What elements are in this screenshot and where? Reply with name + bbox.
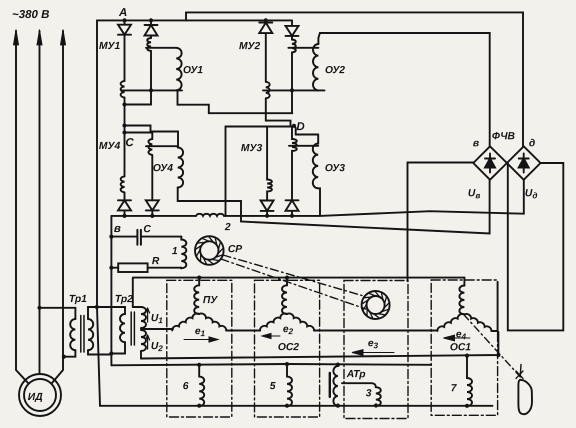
svg-text:СР: СР [228,244,242,255]
svg-text:е4: е4 [456,329,467,341]
bar to OU4 [146,145,178,147]
OU1 rail lead down right [178,90,209,113]
junction winding 7 top [465,354,469,358]
diode inside v [485,154,495,173]
svg-text:7: 7 [451,383,458,394]
MU1 left column down [124,98,126,177]
junction winding 3 bottom [374,403,378,407]
svg-text:Uв: Uв [468,188,480,200]
svg-text:МУ4: МУ4 [99,141,121,152]
svg-text:1: 1 [172,246,178,257]
svg-text:ОУ1: ОУ1 [183,65,203,76]
junction ATr bottom [336,404,340,408]
svg-text:ОУ4: ОУ4 [153,163,173,174]
svg-text:2: 2 [224,222,231,233]
winding OU1 [176,48,181,90]
svg-text:ФЧВ: ФЧВ [492,131,516,142]
OU3 down lead to rail [318,188,320,215]
svg-text:U2: U2 [151,341,163,353]
junction winding 5 top [285,362,289,366]
star line (common of Y windings) [133,278,465,307]
diode MU4 right (cathode down) [146,200,159,216]
svg-text:6: 6 [183,381,189,392]
junction MU2 col2 / OU2 rail [290,88,294,92]
selsyn SR torus [195,236,224,265]
top border bus [186,12,523,146]
svg-text:А: А [118,7,127,19]
winding 3 [342,383,381,406]
svg-text:D: D [296,121,304,133]
svg-text:С: С [125,137,134,149]
junction diode VD2 top [149,18,153,22]
svg-text:Uд: Uд [525,188,538,200]
arrow U1 [146,308,150,322]
svg-text:3: 3 [366,388,372,399]
junction winding 7 bottom [465,404,469,408]
phase line 3 [52,31,63,383]
node on MU1 column [122,102,126,106]
svg-text:е1: е1 [195,326,206,338]
capacitor C [137,230,141,245]
node D [292,124,296,128]
Tr2 primary coil [120,314,125,342]
OU2 top feed to FCHV [318,33,489,146]
diode VD1 MU1 (cathode down) [118,20,131,81]
Tr2 secondary winding U2 [141,330,146,351]
junction winding 6 bottom [197,404,201,408]
MU3 col1 [267,127,272,201]
MU2 left winding [266,82,270,99]
bottom rail right part to diamond d [224,180,524,216]
junction on v line [109,351,113,355]
phase line 2 [39,31,41,374]
junction C wire [109,235,113,239]
phase arrow 2 [37,30,42,46]
svg-text:МУ2: МУ2 [239,41,261,52]
MU2 right column down [291,52,293,113]
MU1 right column down [150,51,152,105]
svg-text:Тр1: Тр1 [69,294,87,305]
ATr core bar [329,373,331,397]
MU4 top wire, node C [125,132,153,134]
junction PU top [197,276,201,280]
bar to OU3 [289,145,318,147]
svg-text:д: д [529,138,535,149]
mechanical link ring to handset [464,315,520,377]
Tr2 secondary winding U1 [141,307,146,328]
Tr1 secondary coil [88,319,93,350]
resistor R [111,267,118,269]
handset [518,380,532,414]
winding OU3 [313,135,318,189]
dash-dot box OS1 [431,280,497,415]
svg-text:С: С [143,224,151,235]
winding OU2 [313,44,318,90]
Tr1 primary top lead [40,308,76,319]
Tr1 core [81,316,84,353]
ring 2 torus [362,291,390,319]
node A [122,18,126,22]
MU3 col2 [292,127,297,201]
svg-text:в: в [473,138,479,149]
MU2 right winding [292,40,296,53]
capacitor C wire [111,236,136,238]
wire R to winding 1 [148,267,182,269]
wire Hb lower bus [111,364,431,365]
diode VD2 MU1 (cathode up) [145,20,158,38]
winding 1 [181,237,186,269]
arrow e2 [262,333,280,338]
junction winding 6 top [197,363,201,367]
junction Ha / mech link [496,353,500,357]
dash-dot box PU [167,280,232,417]
Tr1 primary coil [70,319,75,350]
MU1-MU2 top rail [97,19,292,21]
Tr2 primary top lead [97,307,125,314]
arrow U2 [146,335,150,349]
diamond v [473,146,507,180]
junction on left border [95,305,99,309]
diode MU4 left (cathode up) [118,200,131,216]
left border vertical [97,20,100,405]
left diamond left input from x407 [408,163,474,282]
wire H2 jog to OU4 top [125,126,179,148]
Tr2 secondary leads [133,307,173,359]
MU3 left border [225,127,227,216]
phase line 1 [16,31,28,383]
svg-text:ИД: ИД [28,392,43,403]
winding 7 [467,355,472,406]
svg-text:в: в [114,223,121,235]
svg-text:ОУ2: ОУ2 [325,65,345,76]
svg-text:е2: е2 [283,324,294,336]
jog top border to MU1 rail [185,12,187,20]
svg-text:5: 5 [270,381,276,392]
svg-text:ОС2: ОС2 [278,342,299,353]
svg-text:R: R [152,256,160,267]
Tr2 primary bottom lead [111,342,125,353]
wire Ha lower bus [141,332,498,359]
winding OU4 [178,148,183,188]
junction OS2 top [285,276,289,280]
bottom rail of MU cells [111,215,196,217]
diode MU3 col1 (cathode down) [261,201,274,216]
dash-dot box ring [344,281,408,419]
arrow e1 [184,337,218,342]
Tr1 secondary top lead [88,307,97,319]
pivot tick above x mark [519,365,522,378]
arrow e4 [444,335,471,341]
wire HB to MU2 [209,112,292,114]
Tr1 primary bottom lead [64,350,76,357]
bar to OU2 [288,47,318,49]
diode inside d [519,154,529,173]
junction ATr top [336,363,340,367]
svg-text:АТр: АТр [346,369,366,380]
junction diodes on bottom rail [122,214,126,218]
diode MU3 col2 (cathode up) [286,200,299,216]
junction phase 2 to Tr1 [37,306,41,310]
motor ID [19,374,61,416]
x mark [516,371,523,379]
svg-text:~380 В: ~380 В [12,9,49,21]
diamond d [507,146,541,180]
Tr1 secondary bottom lead [88,350,111,354]
junction MU2 diode top [264,18,268,22]
wire H1 [125,104,152,106]
bottom rail [100,405,493,407]
MU3 top wire [226,126,295,128]
bar w1 to OU1 [146,47,176,49]
OU4 output wire to Uv line [178,180,490,234]
MU1 right winding w1 [147,38,151,51]
MU1 left winding w2 [121,81,125,98]
junction winding 5 bottom [285,404,289,408]
svg-text:е3: е3 [368,338,379,350]
junction phase 3 [62,355,66,359]
phase arrow 3 [60,30,65,46]
winding 2 on rail [196,214,224,216]
phase arrow 1 [13,30,18,46]
svg-text:ОУ3: ОУ3 [325,163,345,174]
svg-text:Тр2: Тр2 [115,294,133,305]
node v vertical [110,216,112,365]
svg-text:МУ3: МУ3 [241,143,263,154]
MU4 right column winding [148,133,152,201]
svg-text:ПУ: ПУ [203,295,218,306]
MU4 left column winding [121,176,125,200]
D lead to OU3 [294,126,318,135]
junction MU1 col2 / OU1 rail [149,88,153,92]
mechanical link SR to ring [223,255,362,296]
MU2 left column to D [266,98,291,126]
svg-text:U1: U1 [151,313,163,325]
Tr2 core [131,312,134,345]
junction R wire [109,266,113,270]
OU2 bottom rail [263,89,325,91]
diode MU2 right (cathode down) [286,20,299,39]
arrow e3 [352,350,394,356]
dash-dot box OS2 [255,280,320,417]
FCHV mid output loop [508,163,564,330]
OU1 bottom rail [121,89,182,91]
svg-text:МУ1: МУ1 [99,41,121,52]
wire capacitor to winding 1 [141,236,181,238]
svg-text:ОС1: ОС1 [450,342,471,353]
